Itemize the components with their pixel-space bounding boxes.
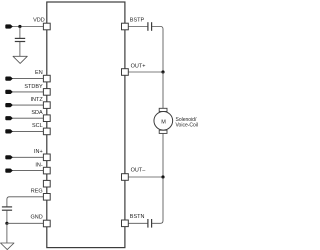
wire OUT- — [128, 176, 163, 178]
wire junction to ground — [6, 223, 8, 243]
svg-text:GND: GND — [30, 214, 42, 220]
terminal VDD input — [5, 24, 12, 28]
svg-text:Voice-Coil: Voice-Coil — [176, 123, 199, 129]
wire REG to C2 — [7, 197, 44, 207]
pin VDD — [43, 23, 50, 30]
svg-text:M: M — [161, 119, 166, 125]
svg-text:SDA: SDA — [31, 110, 43, 116]
wire BSTP to C3 — [128, 26, 147, 28]
capacitor C1 (VDD bypass) — [15, 38, 25, 41]
wire C3 to OUT+ node — [152, 27, 163, 72]
wire INTZ input — [12, 104, 43, 106]
terminal SDA input — [5, 116, 12, 120]
wire C2 to GND node — [6, 211, 8, 224]
wire C1 to ground — [19, 42, 21, 56]
capacitor C2 (REG) — [2, 207, 12, 210]
wire GND pin to junction — [7, 222, 44, 224]
pin IN- — [43, 167, 50, 174]
wire EN input — [12, 78, 43, 80]
svg-text:REG: REG — [31, 188, 43, 194]
svg-text:STDBY: STDBY — [24, 84, 43, 90]
ground (C1) — [13, 56, 27, 63]
capacitor C4 (BSTN bootstrap) — [148, 219, 152, 228]
pin OUT- — [122, 174, 129, 181]
svg-text:OUT–: OUT– — [131, 167, 147, 173]
wire IN+ input — [12, 156, 43, 158]
IC U1 body — [47, 2, 125, 248]
svg-text:BSTP: BSTP — [130, 18, 145, 24]
wire motor to OUT- node — [162, 133, 164, 177]
pin OUT+ — [122, 69, 129, 76]
wire C4 to OUT- node — [152, 178, 163, 224]
svg-text:OUT+: OUT+ — [131, 63, 146, 69]
wire SDA input — [12, 117, 43, 119]
wire OUT+ node to motor — [162, 72, 164, 108]
pin REG — [43, 194, 50, 201]
terminal IN+ input — [5, 155, 12, 159]
terminal SCL input — [5, 129, 12, 133]
pin IN+ — [43, 154, 50, 161]
wire junction to C1 — [19, 27, 21, 39]
motor M1 (Solenoid / Voice-Coil) — [154, 108, 173, 133]
wire IN- input — [12, 170, 43, 172]
node OUT+ junction — [161, 70, 164, 73]
pin SDA — [43, 115, 50, 122]
wire VDD input — [12, 26, 43, 28]
wire SCL input — [12, 130, 43, 132]
wire BSTN to C4 — [128, 222, 147, 224]
pin EN — [43, 75, 50, 82]
terminal STDBY input — [5, 90, 12, 94]
svg-text:INTZ: INTZ — [30, 97, 43, 103]
node OUT- junction — [161, 175, 164, 178]
svg-text:BSTN: BSTN — [130, 214, 145, 220]
svg-text:IN+: IN+ — [34, 149, 43, 155]
terminal EN input — [5, 77, 12, 81]
svg-text:SCL: SCL — [32, 123, 43, 129]
node C2-GND junction — [5, 222, 8, 225]
svg-text:IN-: IN- — [35, 162, 43, 168]
pin unlabeled (below IN-) — [43, 180, 50, 187]
pin GND — [43, 220, 50, 227]
pin BSTN — [122, 220, 129, 227]
capacitor C3 (BSTP bootstrap) — [148, 22, 152, 31]
pin INTZ — [43, 102, 50, 109]
svg-text:VDD: VDD — [33, 18, 45, 24]
pin STDBY — [43, 89, 50, 96]
pin BSTP — [122, 23, 129, 30]
terminal INTZ input — [5, 103, 12, 107]
ground (GND) — [1, 243, 15, 250]
svg-text:EN: EN — [35, 70, 43, 76]
wire STDBY input — [12, 91, 43, 93]
wire OUT+ — [128, 71, 163, 73]
node VDD-C1 junction — [18, 25, 21, 28]
terminal IN- input — [5, 169, 12, 173]
pin SCL — [43, 128, 50, 135]
